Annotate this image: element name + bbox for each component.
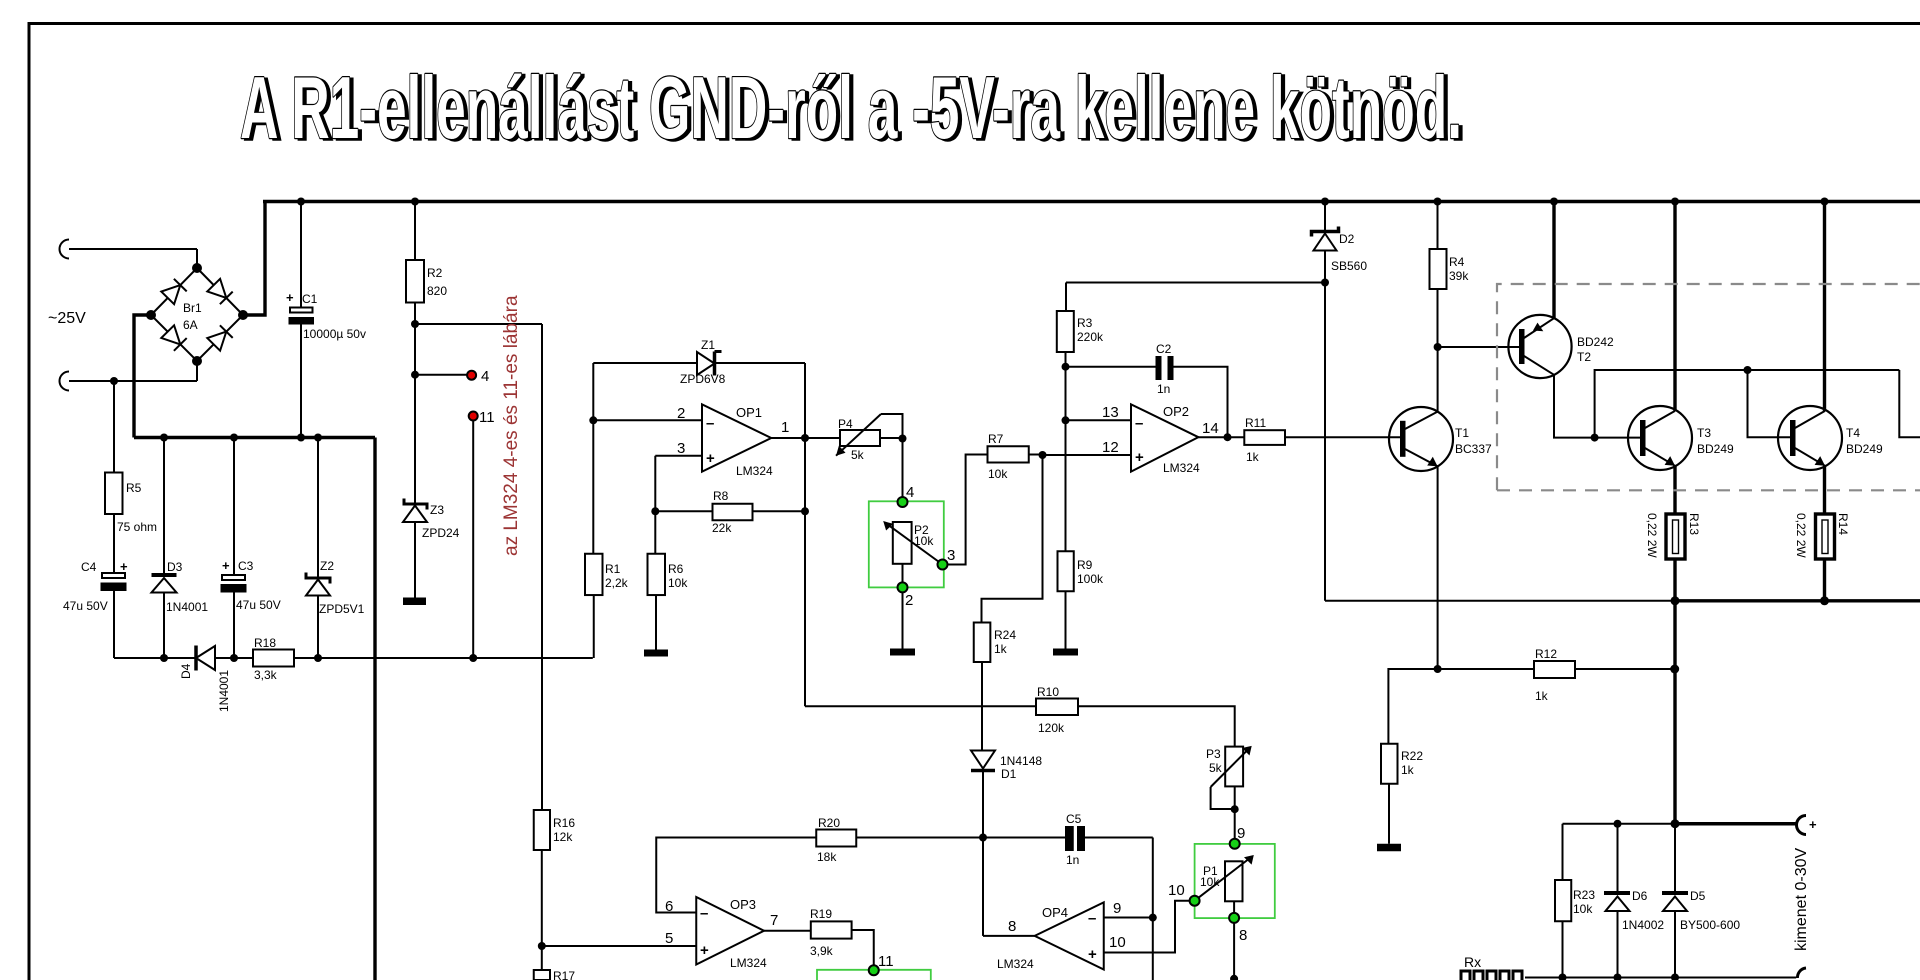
svg-text:6A: 6A <box>183 318 198 332</box>
svg-text:az LM324 4-es és 11-es lábára: az LM324 4-es és 11-es lábára <box>501 295 522 556</box>
svg-text:D2: D2 <box>1339 232 1355 246</box>
svg-text:3,3k: 3,3k <box>254 668 278 682</box>
svg-text:100k: 100k <box>1077 572 1104 586</box>
svg-text:R22: R22 <box>1401 749 1423 763</box>
wire T1 emitter node to R12 R22 <box>1388 665 1441 744</box>
potentiometer P3 <box>1206 746 1252 844</box>
svg-text:R12: R12 <box>1535 647 1557 661</box>
wire emitter rail <box>1325 596 1920 605</box>
svg-text:OP3: OP3 <box>730 897 756 912</box>
wire OP2 pin13 column <box>1062 367 1132 552</box>
svg-text:14: 14 <box>1202 420 1219 437</box>
svg-text:BD249: BD249 <box>1697 442 1734 456</box>
svg-text:+: + <box>700 942 709 959</box>
svg-text:BY500-600: BY500-600 <box>1680 918 1740 932</box>
svg-text:D1: D1 <box>1001 767 1017 781</box>
svg-text:10: 10 <box>1109 934 1126 951</box>
svg-text:OP4: OP4 <box>1042 905 1068 920</box>
svg-text:LM324: LM324 <box>736 464 773 478</box>
svg-text:OP1: OP1 <box>736 405 762 420</box>
wire OP3 pin5 <box>542 945 696 947</box>
svg-text:ZPD6V8: ZPD6V8 <box>680 372 726 386</box>
resistor R4 <box>1430 202 1470 352</box>
svg-text:T4: T4 <box>1846 426 1860 440</box>
svg-text:T3: T3 <box>1697 426 1711 440</box>
svg-text:C4: C4 <box>81 560 97 574</box>
op-amp OP2 <box>1102 404 1219 475</box>
wire OP1 pin2 node <box>589 363 702 554</box>
diode D5 <box>1662 889 1740 978</box>
svg-text:1: 1 <box>781 419 789 436</box>
wire bottom output rail <box>1525 974 1796 980</box>
svg-text:C1: C1 <box>302 292 318 306</box>
svg-text:R20: R20 <box>818 816 840 830</box>
svg-text:SB560: SB560 <box>1331 259 1367 273</box>
svg-text:1k: 1k <box>994 642 1008 656</box>
svg-text:1k: 1k <box>1535 689 1549 703</box>
ground R6 <box>644 650 668 657</box>
svg-text:R18: R18 <box>254 636 276 650</box>
svg-text:11: 11 <box>878 953 894 970</box>
svg-text:P3: P3 <box>1206 747 1221 761</box>
svg-text:47u 50V: 47u 50V <box>63 599 108 613</box>
svg-text:4: 4 <box>481 368 489 385</box>
svg-text:0,22 2W: 0,22 2W <box>1645 513 1659 558</box>
resistor R20 <box>816 816 983 864</box>
wire R2 node to R16 column <box>541 324 543 810</box>
node output + terminal <box>1797 816 1817 835</box>
op-amp OP4 <box>997 900 1126 971</box>
svg-text:A R1-ellenállást GND-ről a -5V: A R1-ellenállást GND-ről a -5V-ra kellen… <box>240 58 1462 157</box>
svg-text:BD249: BD249 <box>1846 442 1883 456</box>
wire OP4 pin9 <box>1104 838 1157 980</box>
wire bridge + output to rail <box>243 202 265 316</box>
svg-text:1N4002: 1N4002 <box>1622 918 1664 932</box>
svg-text:R13: R13 <box>1687 513 1701 535</box>
wire OP2 pin12 node <box>982 451 1132 623</box>
svg-text:220k: 220k <box>1077 330 1104 344</box>
svg-text:D3: D3 <box>167 560 183 574</box>
svg-text:ZPD5V1: ZPD5V1 <box>319 602 365 616</box>
resistor R2 <box>406 202 447 325</box>
svg-text:+: + <box>222 558 230 573</box>
transistor T4 <box>1778 202 1883 515</box>
capacitor C4 <box>63 559 128 658</box>
resistor R12 <box>1438 647 1680 703</box>
svg-text:R19: R19 <box>810 907 832 921</box>
svg-text:18k: 18k <box>817 850 837 864</box>
capacitor C3 <box>221 438 281 659</box>
wire top +rail <box>263 198 1920 206</box>
svg-text:3: 3 <box>947 547 955 564</box>
svg-text:LM324: LM324 <box>997 957 1034 971</box>
svg-text:13: 13 <box>1102 404 1119 421</box>
wire output sense row <box>1563 820 1676 891</box>
wire driver bus to T3 T4 bases <box>1595 366 1920 438</box>
svg-text:Z1: Z1 <box>701 338 715 352</box>
svg-text:R9: R9 <box>1077 558 1093 572</box>
svg-text:9: 9 <box>1113 900 1121 917</box>
svg-text:–: – <box>706 415 714 432</box>
svg-text:10k: 10k <box>988 467 1008 481</box>
wire R16 column <box>534 810 576 970</box>
resistor R5 <box>105 381 157 573</box>
wire D2 node to R3 <box>1066 279 1329 312</box>
diode D1 <box>971 751 1042 838</box>
node 4 red <box>467 368 489 385</box>
op-amp OP1 <box>677 404 789 478</box>
svg-text:BC337: BC337 <box>1455 442 1492 456</box>
wire OP1 out to R10 row <box>805 705 1036 707</box>
wire T1 collector to T2 base <box>1438 346 1519 348</box>
transistor T2 <box>1508 202 1614 379</box>
svg-text:+: + <box>1088 946 1097 963</box>
svg-text:11: 11 <box>479 409 495 426</box>
svg-text:120k: 120k <box>1038 721 1065 735</box>
svg-text:T2: T2 <box>1577 350 1591 364</box>
svg-text:R16: R16 <box>553 816 575 830</box>
wire OP1 output column <box>771 363 840 706</box>
svg-text:10000µ 50v: 10000µ 50v <box>303 327 366 341</box>
svg-text:Br1: Br1 <box>183 301 202 315</box>
potentiometer P4 <box>836 414 907 502</box>
resistor R9 <box>1058 551 1105 648</box>
svg-text:10k: 10k <box>1573 902 1593 916</box>
svg-text:2,2k: 2,2k <box>605 576 629 590</box>
svg-text:1n: 1n <box>1157 382 1170 396</box>
title text <box>240 58 1466 159</box>
wire -5V row rail <box>114 654 593 662</box>
svg-text:+: + <box>1809 817 1817 832</box>
capacitor C2 <box>1062 342 1228 437</box>
svg-text:R1: R1 <box>605 562 621 576</box>
resistor R8 <box>655 489 809 535</box>
svg-text:3,9k: 3,9k <box>810 944 834 958</box>
svg-text:R6: R6 <box>668 562 684 576</box>
transistor T1 <box>1389 347 1492 669</box>
ground P2 <box>890 649 915 656</box>
svg-text:47u 50V: 47u 50V <box>236 598 281 612</box>
svg-text:R4: R4 <box>1449 255 1465 269</box>
resistor Rx shunt <box>1461 954 1522 980</box>
resistor R1 <box>585 554 629 658</box>
capacitor C1 <box>286 202 366 438</box>
op-amp OP3 <box>665 897 778 970</box>
potentiometer P2 green box <box>869 484 956 649</box>
svg-text:D6: D6 <box>1632 889 1648 903</box>
wire OP4 pin10 <box>1104 901 1190 953</box>
svg-text:10k: 10k <box>1200 875 1220 889</box>
svg-text:8: 8 <box>1008 918 1016 935</box>
wire P2 wiper to R7 <box>947 455 988 565</box>
resistor R14 <box>1794 513 1850 601</box>
capacitor C5 <box>983 812 1153 867</box>
svg-text:12: 12 <box>1102 439 1119 456</box>
svg-text:10k: 10k <box>668 576 688 590</box>
wire gnd bus vertical drop <box>373 438 376 980</box>
svg-text:5k: 5k <box>1209 761 1223 775</box>
svg-text:2: 2 <box>905 592 913 609</box>
wire OP1 pin3 node <box>651 456 702 554</box>
wire T2 collector to T3 base <box>1554 375 1640 442</box>
svg-text:R7: R7 <box>988 432 1004 446</box>
svg-text:1n: 1n <box>1066 853 1079 867</box>
svg-text:1N4001: 1N4001 <box>217 670 231 712</box>
diode D4 <box>179 646 231 713</box>
ground R22 <box>1377 844 1401 852</box>
node AC input terminal top <box>60 240 198 269</box>
svg-text:+: + <box>286 290 294 305</box>
bridge rectifier Br1 <box>146 263 248 366</box>
svg-text:C5: C5 <box>1066 812 1082 826</box>
svg-text:22k: 22k <box>712 521 732 535</box>
svg-text:10: 10 <box>1168 882 1185 899</box>
svg-text:+: + <box>706 450 715 467</box>
diode D6 <box>1604 889 1664 978</box>
wire gnd bus <box>134 434 375 442</box>
svg-text:kimenet 0-30V: kimenet 0-30V <box>1793 848 1810 951</box>
wire OP3 pin6 loop <box>656 838 816 913</box>
svg-text:820: 820 <box>427 284 447 298</box>
svg-text:LM324: LM324 <box>1163 461 1200 475</box>
zener Z1 <box>593 338 805 386</box>
svg-text:–: – <box>700 905 708 922</box>
diode D2 <box>1312 202 1368 283</box>
node AC input terminal bottom <box>60 361 198 391</box>
resistor R10 <box>1036 685 1235 747</box>
svg-text:5: 5 <box>665 930 673 947</box>
svg-text:1N4001: 1N4001 <box>166 600 208 614</box>
svg-text:D4: D4 <box>179 663 193 679</box>
svg-text:+: + <box>1135 449 1144 466</box>
svg-text:P4: P4 <box>838 417 853 431</box>
svg-text:7: 7 <box>770 912 778 929</box>
svg-text:R3: R3 <box>1077 316 1093 330</box>
wire R2 bottom node <box>411 320 542 504</box>
svg-text:~25V: ~25V <box>48 310 86 327</box>
resistor R19 <box>764 907 874 970</box>
resistor R23 <box>1555 880 1595 978</box>
svg-text:R17: R17 <box>553 969 575 980</box>
resistor R3 <box>1057 311 1104 367</box>
svg-text:BD242: BD242 <box>1577 335 1614 349</box>
resistor R6 <box>648 554 689 650</box>
svg-text:T1: T1 <box>1455 426 1469 440</box>
svg-text:D5: D5 <box>1690 889 1706 903</box>
svg-text:5k: 5k <box>851 448 865 462</box>
svg-text:R5: R5 <box>126 481 142 495</box>
svg-text:R23: R23 <box>1573 888 1595 902</box>
svg-text:0,22 2W: 0,22 2W <box>1794 513 1808 558</box>
resistor R18 <box>253 636 294 682</box>
svg-text:Z3: Z3 <box>430 503 444 517</box>
svg-text:10k: 10k <box>914 534 934 548</box>
svg-text:–: – <box>1135 415 1143 432</box>
svg-text:Rx: Rx <box>1464 954 1481 970</box>
svg-text:1N4148: 1N4148 <box>1000 754 1042 768</box>
svg-text:75 ohm: 75 ohm <box>117 520 157 534</box>
node 11 red <box>469 409 495 658</box>
svg-text:C2: C2 <box>1156 342 1172 356</box>
svg-text:LM324: LM324 <box>730 956 767 970</box>
svg-text:1k: 1k <box>1401 763 1415 777</box>
svg-text:ZPD24: ZPD24 <box>422 526 460 540</box>
svg-text:Z2: Z2 <box>320 559 334 573</box>
svg-text:R11: R11 <box>1245 416 1266 430</box>
node 11 green box <box>817 953 931 980</box>
svg-text:1k: 1k <box>1246 450 1260 464</box>
wire bridge - output to gnd bus <box>134 315 151 438</box>
svg-text:R10: R10 <box>1037 685 1059 699</box>
dashed box output stage <box>1497 284 1920 490</box>
ground R9 <box>1053 649 1078 656</box>
svg-text:R14: R14 <box>1836 513 1850 535</box>
resistor R13 <box>1645 513 1701 601</box>
potentiometer P1 green box <box>1168 839 1275 980</box>
svg-text:R8: R8 <box>713 489 729 503</box>
resistor R22 <box>1381 744 1423 844</box>
diode D3 <box>152 438 209 659</box>
svg-text:3: 3 <box>677 440 685 457</box>
svg-text:8: 8 <box>1239 927 1247 944</box>
wire output column <box>1671 601 1798 828</box>
svg-text:12k: 12k <box>553 830 573 844</box>
svg-text:OP2: OP2 <box>1163 404 1189 419</box>
transistor T3 <box>1628 202 1734 515</box>
zener Z3 <box>403 499 460 598</box>
svg-text:R24: R24 <box>994 628 1016 642</box>
wire D1 node row <box>979 834 1035 936</box>
resistor R11 <box>1198 416 1400 464</box>
wire D2 column down <box>1324 283 1326 601</box>
resistor R7 <box>988 432 1043 481</box>
resistor R17 <box>534 969 576 980</box>
resistor R24 <box>974 623 1017 751</box>
node output - terminal <box>1797 968 1806 978</box>
zener Z2 <box>306 438 365 659</box>
ground Z3 <box>403 598 426 606</box>
svg-text:C3: C3 <box>238 559 254 573</box>
svg-text:–: – <box>1088 910 1096 927</box>
svg-text:39k: 39k <box>1449 269 1469 283</box>
svg-text:+: + <box>120 559 128 574</box>
svg-text:R2: R2 <box>427 266 443 280</box>
